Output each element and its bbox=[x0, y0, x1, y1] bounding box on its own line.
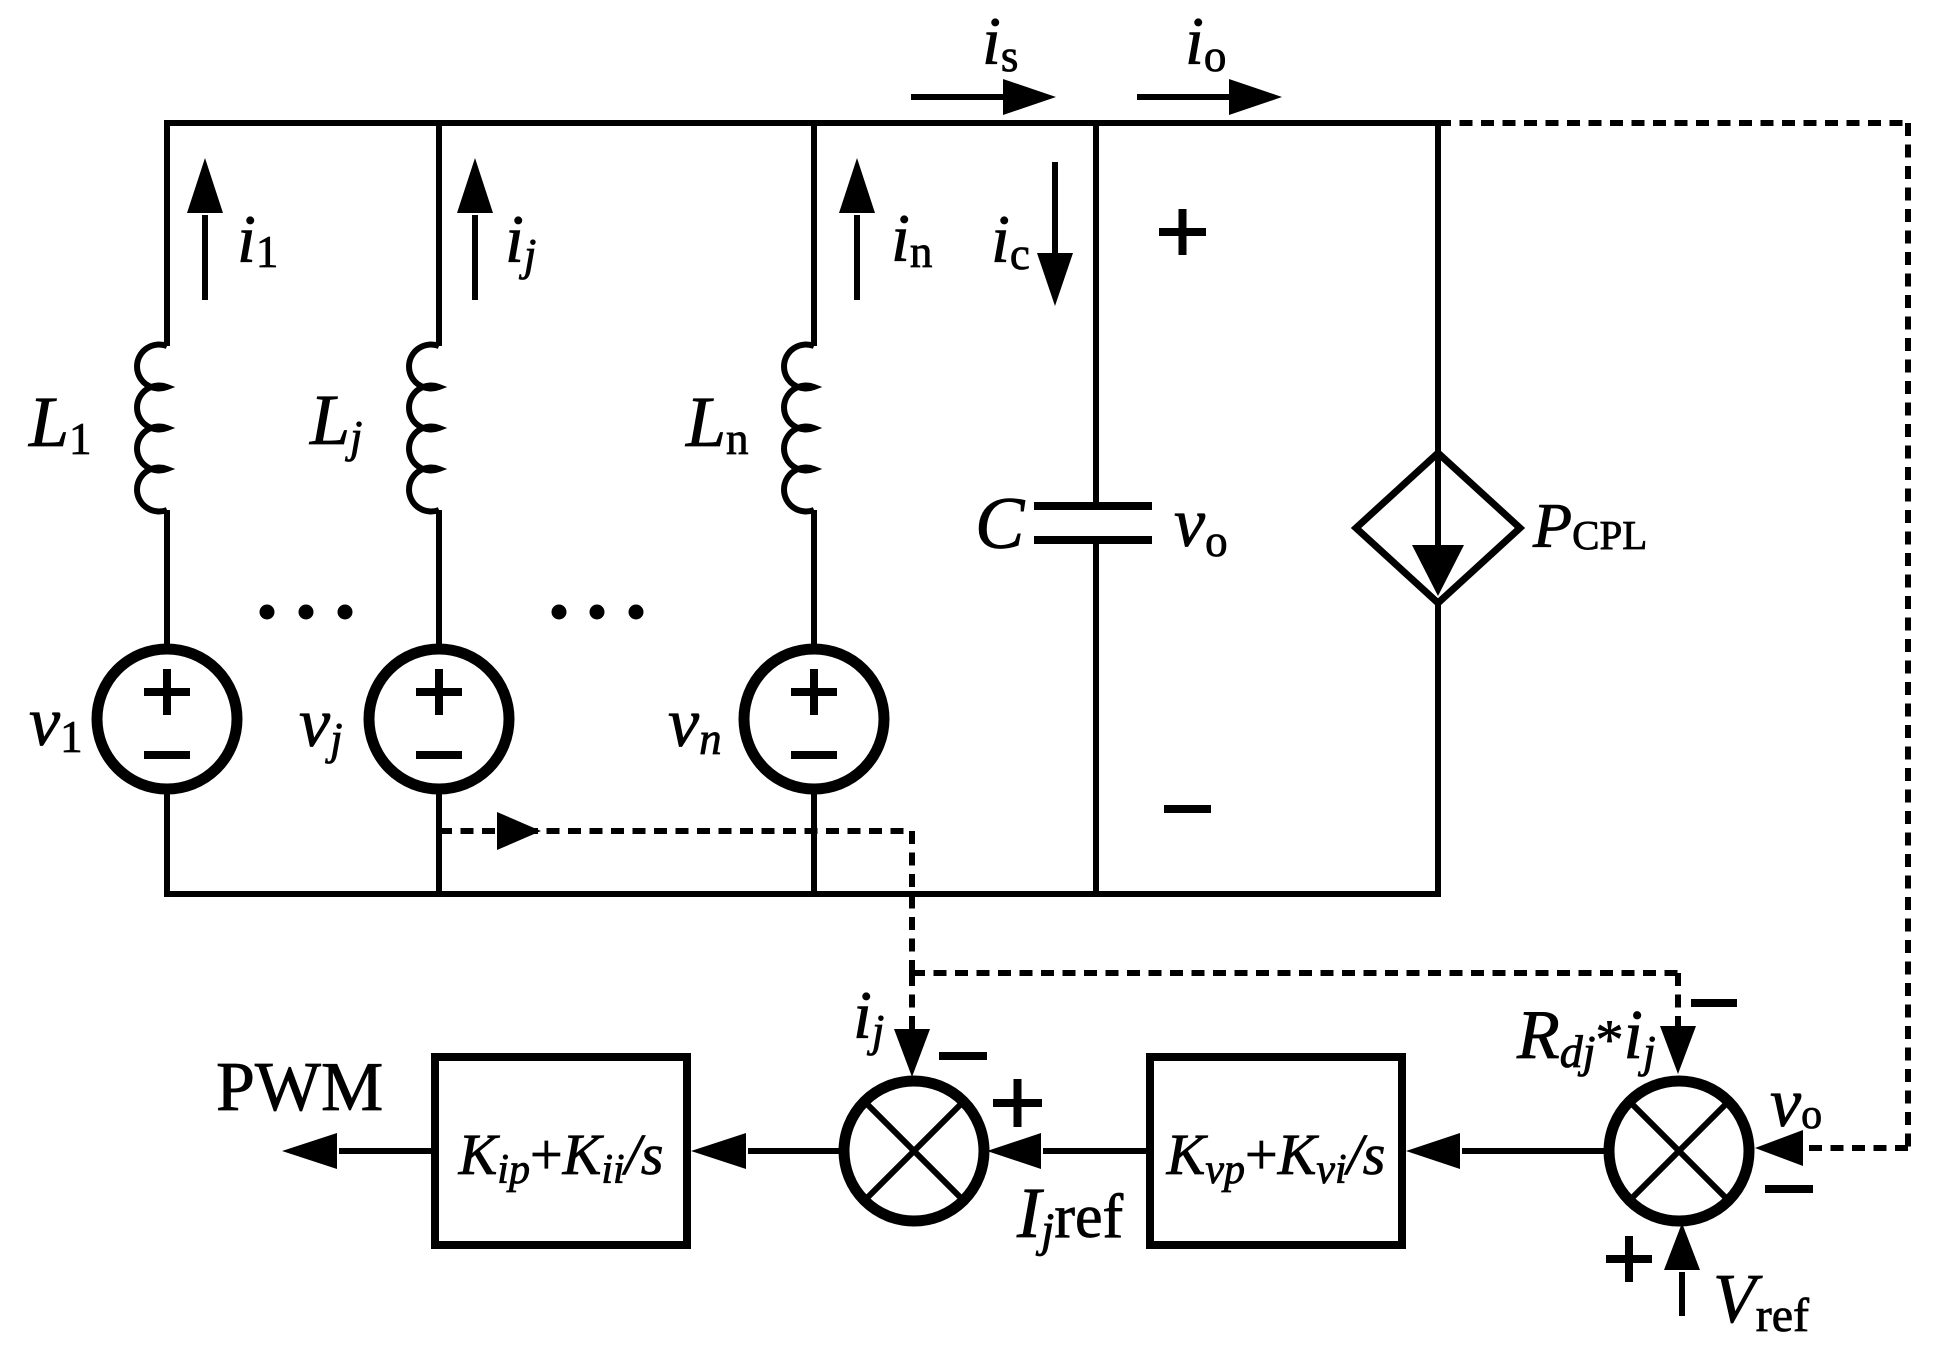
sign plus at S1 right bbox=[993, 1079, 1042, 1127]
arrow Vref into S2 bbox=[1664, 1223, 1700, 1316]
arrow io bbox=[1137, 79, 1282, 115]
svg-text:ic: ic bbox=[991, 201, 1030, 279]
inductor L1 bbox=[137, 345, 167, 512]
source v1 bbox=[97, 649, 237, 789]
wire capacitor branch upper bbox=[1093, 120, 1099, 502]
capacitor C bbox=[1034, 506, 1152, 540]
arrow S2 to Kvp block bbox=[1406, 1133, 1611, 1169]
svg-text:ij: ij bbox=[505, 201, 536, 280]
wire branch n middle bbox=[811, 510, 817, 652]
wire branch j upper bbox=[436, 120, 442, 346]
dashed vo feedback wire top segment bbox=[1438, 120, 1908, 126]
svg-text:C: C bbox=[975, 483, 1026, 565]
wire branch1 middle bbox=[164, 510, 170, 652]
svg-text:i1: i1 bbox=[237, 201, 278, 277]
svg-text:PCPL: PCPL bbox=[1532, 490, 1647, 561]
summing junction S1 bbox=[844, 1081, 984, 1221]
dashed Rdj*ij drop into S2 bbox=[1675, 973, 1681, 1026]
arrow is bbox=[911, 79, 1056, 115]
arrow ij bbox=[457, 158, 493, 300]
dashed vo feedback wire right segment bbox=[1905, 123, 1911, 1148]
arrow Kvp block to S1 bbox=[987, 1133, 1152, 1169]
svg-text:in: in bbox=[891, 200, 932, 277]
arrow ic bbox=[1037, 162, 1073, 306]
wire bottom bus bbox=[164, 891, 1441, 897]
block Kvp+Kvi/s bbox=[1150, 1057, 1402, 1245]
svg-text:io: io bbox=[1185, 3, 1226, 81]
summing junction S2 bbox=[1609, 1081, 1749, 1221]
arrowhead vo into junction S2 bbox=[1755, 1130, 1803, 1166]
svg-text:Vref: Vref bbox=[1713, 1261, 1809, 1342]
arrowhead ij into junction S1 bbox=[894, 1029, 930, 1077]
wire load branch lower bbox=[1435, 601, 1441, 897]
dashed vo feedback wire into S2 bbox=[1800, 1145, 1908, 1151]
svg-text:Kvp+Kvi/s: Kvp+Kvi/s bbox=[1166, 1122, 1386, 1193]
sign plus vo polarity bbox=[1159, 209, 1206, 255]
wire load branch upper bbox=[1435, 120, 1441, 455]
arrow i1 bbox=[187, 158, 223, 300]
source vn bbox=[744, 649, 884, 789]
svg-text:ij: ij bbox=[853, 977, 884, 1056]
sign minus at S2 right bbox=[1765, 1185, 1813, 1193]
CPL arrow head bbox=[1412, 545, 1464, 596]
wire branch j middle bbox=[436, 510, 442, 652]
svg-text:Ln: Ln bbox=[685, 382, 749, 464]
svg-text:Rdj*ij: Rdj*ij bbox=[1516, 997, 1656, 1077]
sign plus at S2 bottom bbox=[1606, 1236, 1652, 1282]
sign minus at S2 top bbox=[1691, 999, 1737, 1007]
inductor Lj bbox=[409, 345, 439, 512]
block Kip+Kii/s bbox=[435, 1057, 687, 1245]
dashed ij feedback tap from branch j bbox=[439, 828, 912, 834]
svg-text:vj: vj bbox=[299, 685, 343, 764]
svg-text:Kip+Kii/s: Kip+Kii/s bbox=[458, 1122, 664, 1193]
svg-text:vn: vn bbox=[668, 685, 722, 764]
arrowhead Rdj*ij into junction S2 bbox=[1660, 1026, 1696, 1074]
source vj bbox=[369, 649, 509, 789]
wire branch n upper bbox=[811, 120, 817, 346]
dashed ij feedback wire to S2 bbox=[912, 970, 1678, 976]
wire top bus bbox=[164, 120, 1441, 126]
arrow S1 to Kip block bbox=[691, 1133, 846, 1169]
svg-text:Ijref: Ijref bbox=[1016, 1173, 1123, 1257]
wire branch1 upper bbox=[164, 120, 170, 346]
svg-text:vo: vo bbox=[1770, 1065, 1822, 1142]
svg-text:L1: L1 bbox=[28, 382, 92, 464]
svg-text:PWM: PWM bbox=[216, 1049, 383, 1126]
ellipsis dots left bbox=[260, 605, 353, 620]
svg-text:is: is bbox=[982, 3, 1018, 81]
svg-text:v1: v1 bbox=[29, 684, 83, 762]
CPL source P_CPL diamond bbox=[1356, 453, 1520, 603]
dashed ij feedback vertical segment bbox=[909, 831, 915, 973]
wire branch1 lower bbox=[164, 786, 170, 897]
arrow PWM output bbox=[282, 1133, 433, 1169]
wire branch j lower bbox=[436, 786, 442, 897]
ellipsis dots right bbox=[552, 605, 644, 620]
inductor Ln bbox=[784, 345, 814, 512]
sign minus vo polarity bbox=[1164, 805, 1211, 813]
svg-text:vo: vo bbox=[1174, 485, 1228, 566]
arrow in bbox=[839, 158, 875, 300]
wire capacitor branch lower bbox=[1093, 544, 1099, 897]
dashed ij feedback drop into S1 bbox=[909, 973, 915, 1029]
arrowhead ij feedback (right) bbox=[497, 812, 541, 850]
wire branch n lower bbox=[811, 786, 817, 897]
sign minus at S1 top bbox=[939, 1052, 987, 1060]
svg-text:Lj: Lj bbox=[309, 380, 363, 462]
